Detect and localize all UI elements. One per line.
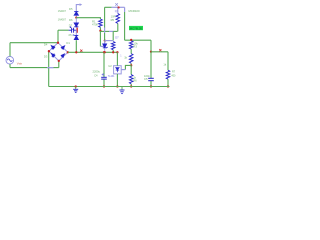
svg-text:U2: U2 [108,64,112,68]
wire top to cap C3 [58,29,69,31]
AC source V1 [6,56,14,64]
wire source bottom [9,64,11,68]
power arrow flag (top of stack) [76,5,79,12]
wire left vertex down to ground rail [48,51,50,86]
zener diode D8 [103,41,108,53]
wire box right edge [124,7,126,12]
svg-text:1k: 1k [124,55,127,59]
resistor R5 [117,8,119,14]
wire R5 net down to bar [112,31,114,40]
+ mark near cap [72,29,74,31]
green highlight label box [129,26,143,30]
capacitor C5 [150,52,152,78]
DC+ rail y=52.3 [68,51,118,53]
svg-text:2200u: 2200u [93,70,101,74]
svg-text:C4: C4 [94,74,98,78]
wire lavender bar node A [105,40,113,42]
svg-text:1N4007: 1N4007 [58,11,67,13]
resistor R1 [99,19,103,27]
svg-text:1N4007: 1N4007 [58,19,67,21]
capacitor C4 [103,51,105,53]
svg-text:MCR100: MCR100 [129,9,140,13]
diode D5 (vertical, stack top, points up) [74,11,78,18]
wire divider node down to R6 [130,65,132,74]
svg-text:R3: R3 [133,45,137,49]
wire up to bridge bottom vertex [58,61,60,68]
resistor R2 [111,42,115,50]
resistor R7 [167,52,169,70]
svg-text:400: 400 [171,74,176,77]
svg-text:470k: 470k [92,22,98,26]
diode D7 (stack, third, points up) [74,30,78,39]
node stack junction [75,16,77,18]
svg-text:R5: R5 [111,18,115,22]
diode D2 (bottom-right edge) [61,54,64,57]
diode D4 (top-left edge) [51,46,55,50]
svg-text:D5: D5 [69,7,73,11]
svg-text:D3: D3 [44,55,48,59]
svg-text:D7: D7 [69,24,73,27]
diode D3 (bottom-left edge) [52,54,55,58]
resistor R3 [129,41,133,49]
no-connect x mark [115,3,118,6]
ground symbol 2 [120,87,125,94]
wire U2 bottom pin to ground rail [116,74,118,87]
wire bridge top vertex up [57,30,59,43]
shunt regulator U2 TL431 [114,66,122,74]
svg-text:D6: D6 [69,18,73,22]
wire box left edge [104,7,106,27]
svg-text:1: 1 [120,55,122,58]
svg-text:R6: R6 [133,79,137,83]
resistor R6 [129,75,133,84]
capacitor C3 [69,26,77,32]
svg-text:R7: R7 [172,71,176,74]
svg-text:C5: C5 [144,77,148,81]
svg-text:D1: D1 [66,41,70,45]
wire corner down to node [150,40,152,52]
wire from stack junction right to R1 [76,18,100,19]
red origin marker 2 [159,49,161,51]
wire top horizontal to bridge top vertex [10,42,58,44]
svg-text:1k: 1k [163,63,166,67]
node: bridge vertices junction dots [57,42,59,44]
diode D1 (top-right edge) [61,46,64,49]
red pin end mark of C3 [77,28,78,33]
wire to output section [125,39,151,41]
svg-text:47n: 47n [68,33,73,37]
resistor R4 [129,54,133,64]
svg-text:TL431: TL431 [108,75,115,78]
svg-text:MC78L05: MC78L05 [130,26,143,30]
diode D6 (vertical, stack bottom, points down) [74,18,78,28]
wire R1 bottom to dot [99,27,101,31]
wire R1 node to R5 bottom with hops [100,30,109,32]
wire stack down to DC rail [75,40,77,52]
wire box top edge [105,6,112,8]
wire output branch horizontal [151,51,168,53]
svg-text:D7: D7 [115,35,119,39]
red origin marker 1 [80,50,82,52]
wire hop overlay [47,67,54,69]
svg-text:Vsin: Vsin [17,62,23,66]
wire feedback branch to U2 ref [125,65,131,69]
svg-text:D4: D4 [44,43,48,47]
wire U2 top pin from rail [116,51,118,53]
wire source top [9,43,11,57]
ground rail y=86.5 [49,86,170,88]
wire R1 node down lavender L to node A [99,31,101,47]
ground symbol 1 [73,87,78,93]
bridge rectifier edges (lavender) [49,43,68,61]
wire hop (lavender) over x=48.4 [47,67,54,69]
wire AC bottom rail [10,67,47,69]
